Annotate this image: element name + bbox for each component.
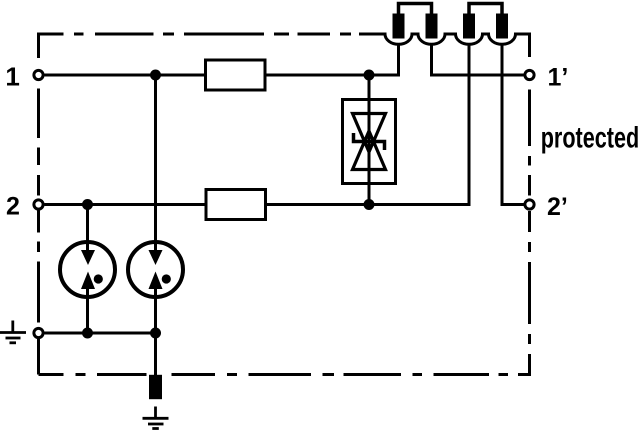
svg-text:1’: 1’ [548,64,569,92]
bridge link pins 1-2 [399,4,432,16]
wire: branch line 1 down to gas discharge tube F2 (crosses line 2) [154,75,157,251]
junction on line 2 at GDT branch [82,199,93,210]
earth ground symbol at ground terminal [0,321,26,343]
junction on ground rail at F1 [82,328,93,339]
wire: gas discharge tube F1 to ground rail [86,288,89,333]
wire: line 1 from R1 to pin 1 of terminal block [267,44,399,75]
bridge link pins 3-4 [469,4,502,16]
svg-text:protected: protected [541,122,640,154]
wire: branch line 2 down to gas discharge tube F1 [86,205,89,252]
terminal 2' (protected output) [525,200,534,209]
TVS lower diode triangle [353,131,386,170]
terminal block pin 2 (plug) [426,14,438,39]
terminal 2 (input) [34,200,43,209]
earth ground symbol below earthing plug [143,407,169,429]
svg-text:2’: 2’ [547,193,568,221]
wire: line 2 from terminal 2 to resistor R2 [45,203,205,206]
terminal block pin 4 (plug) [496,14,508,39]
bottom-right corner [518,354,530,375]
terminal block pin 3 (plug) [463,14,475,39]
wire: suppressor branch from line 1 to line 2 [368,75,371,205]
terminal block pin 1 (plug) [393,14,405,39]
suppressor diode U1 (bidirectional TVS) box [343,100,396,184]
wire: ground rail down to earthing plug [154,333,157,375]
junction on line 1 at GDT branch [150,70,161,81]
wire: ground rail from ground terminal [45,332,156,335]
wire: line 2 from R2 to pin 3 of terminal block [267,44,470,205]
terminal 1' (protected output) [525,70,534,79]
svg-text:2: 2 [6,193,20,221]
ground terminal [34,328,43,337]
enclosure outline (dash-dot), drawn as explicit segments [39,34,530,375]
junction on ground rail at F2 [150,328,161,339]
resistor R2 (series impedance, line 2) [206,190,266,220]
bottom border [39,373,509,376]
top border [39,34,352,58]
svg-text:1: 1 [5,62,19,92]
direct earthing plug (black block on bottom border) [149,375,162,399]
wire: line 1 from terminal 1 to resistor R1 [45,74,205,77]
wire: pin 2 down and right to terminal 1' [432,44,525,75]
junction on line 2 at suppressor branch [364,199,375,210]
disconnect terminal block socket line with 4 cups (top border, solid) [359,34,530,57]
wire: gas discharge tube F2 to ground rail [154,288,157,333]
left border [37,89,40,375]
gas discharge tube F2 (line 1 to ground) [128,242,183,297]
terminal 1 (input) [34,70,43,79]
junction on line 1 at suppressor branch [364,70,375,81]
right border [528,90,531,345]
resistor R1 (series impedance, line 1) [206,60,266,90]
TVS upper diode triangle [353,114,386,153]
gas discharge tube F1 (line 2 to ground) [60,242,115,297]
TVS cathode Z-bar [354,133,385,150]
wire: pin 4 down and right to terminal 2' [502,44,524,205]
